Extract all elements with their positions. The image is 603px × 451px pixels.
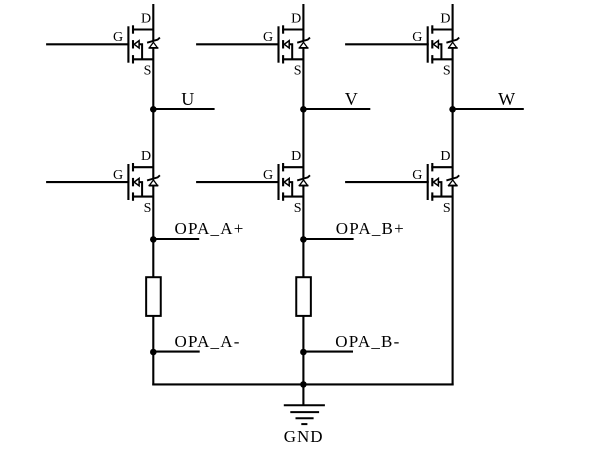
node OPA_A+ (junction dot): [150, 236, 157, 243]
svg-text:OPA_B+: OPA_B+: [336, 219, 405, 238]
gate bar of Q4 (U low-side): [127, 164, 129, 200]
svg-text:S: S: [144, 201, 152, 216]
node OPA_B+ (junction dot): [300, 236, 307, 243]
bulk wire of Q3 (W high-side): [438, 44, 441, 59]
bulk wire of Q1 (U high-side): [139, 44, 142, 59]
svg-text:V: V: [345, 89, 358, 109]
channel segments of Q5 (V low-side): [282, 163, 284, 201]
gate bar of Q2 (V high-side): [277, 26, 279, 62]
body diode of Q6 (W low-side): [446, 175, 459, 185]
svg-text:D: D: [291, 11, 301, 26]
transistor Q5 (V low-side): [196, 149, 310, 216]
svg-text:U: U: [181, 89, 194, 109]
source connection of Q6 (W low-side): [431, 196, 452, 198]
svg-text:G: G: [263, 30, 273, 45]
wire: OPA_B- sense tap: [303, 351, 353, 353]
source connection of Q2 (V high-side): [282, 58, 303, 60]
svg-text:S: S: [443, 64, 451, 79]
wire: U-phase leg vertical (R1 to ground rail): [152, 317, 154, 386]
svg-text:D: D: [141, 11, 151, 26]
resistor R1 (U-phase shunt): [146, 277, 161, 316]
svg-text:S: S: [443, 201, 451, 216]
svg-text:S: S: [144, 64, 152, 79]
channel segments of Q1 (U high-side): [132, 25, 134, 63]
bulk wire of Q4 (U low-side): [139, 182, 142, 197]
svg-text:W: W: [498, 89, 515, 109]
channel segments of Q2 (V high-side): [282, 25, 284, 63]
wire: phase output U: [153, 108, 214, 110]
bulk wire of Q6 (W low-side): [438, 182, 441, 197]
svg-text:G: G: [263, 168, 273, 183]
source connection of Q4 (U low-side): [132, 196, 153, 198]
svg-text:S: S: [294, 201, 302, 216]
svg-text:G: G: [113, 168, 123, 183]
body diode of Q3 (W high-side): [446, 38, 459, 48]
resistor R2 (V-phase shunt): [296, 277, 311, 316]
wire: V-phase leg vertical (R2 through rail to ground symbol): [302, 317, 304, 406]
channel segments of Q4 (U low-side): [132, 163, 134, 201]
svg-text:D: D: [291, 149, 301, 164]
node W (junction dot): [449, 106, 456, 113]
node U (junction dot): [150, 106, 157, 113]
source connection of Q1 (U high-side): [132, 58, 153, 60]
drain connection of Q1 (U high-side): [132, 28, 153, 30]
ground symbol: [284, 405, 325, 424]
transistor Q4 (U low-side): [46, 149, 160, 216]
bulk wire of Q2 (V high-side): [289, 44, 292, 59]
drain connection of Q3 (W high-side): [431, 28, 452, 30]
wire: gate lead of Q4 (U low-side): [46, 181, 129, 183]
wire: W-phase leg vertical (top to ground rail): [452, 4, 454, 385]
channel segments of Q3 (W high-side): [431, 25, 433, 63]
wire: OPA_B+ sense tap: [303, 238, 353, 240]
svg-text:D: D: [141, 149, 151, 164]
svg-text:G: G: [412, 30, 422, 45]
svg-text:OPA_A-: OPA_A-: [175, 332, 241, 351]
drain connection of Q4 (U low-side): [132, 166, 153, 168]
body diode of Q1 (U high-side): [147, 38, 160, 48]
wire: gate lead of Q5 (V low-side): [196, 181, 279, 183]
node OPA_A- (junction dot): [150, 349, 157, 356]
wire: gate lead of Q1 (U high-side): [46, 43, 129, 45]
drain connection of Q6 (W low-side): [431, 166, 452, 168]
drain connection of Q5 (V low-side): [282, 166, 303, 168]
wire: U-phase leg vertical (top to resistor R1): [152, 4, 154, 277]
source connection of Q3 (W high-side): [431, 58, 452, 60]
bulk arrow of Q6 (W low-side): [433, 178, 438, 185]
bulk arrow of Q5 (V low-side): [284, 178, 289, 185]
gate bar of Q3 (W high-side): [427, 26, 429, 62]
bulk arrow of Q4 (U low-side): [134, 178, 139, 185]
body diode of Q5 (V low-side): [297, 175, 310, 185]
wire: gate lead of Q6 (W low-side): [345, 181, 429, 183]
bulk arrow of Q1 (U high-side): [134, 41, 139, 48]
svg-text:GND: GND: [284, 427, 324, 446]
gate bar of Q6 (W low-side): [427, 164, 429, 200]
svg-text:OPA_A+: OPA_A+: [175, 219, 245, 238]
bulk arrow of Q3 (W high-side): [433, 41, 438, 48]
wire: bottom ground rail: [152, 383, 453, 385]
wire: OPA_A+ sense tap: [153, 238, 199, 240]
wire: OPA_A- sense tap: [153, 351, 199, 353]
drain connection of Q2 (V high-side): [282, 28, 303, 30]
svg-text:S: S: [294, 64, 302, 79]
svg-text:D: D: [440, 149, 450, 164]
gate bar of Q5 (V low-side): [277, 164, 279, 200]
transistor Q2 (V high-side): [196, 11, 310, 78]
bulk arrow of Q2 (V high-side): [284, 41, 289, 48]
svg-text:G: G: [412, 168, 422, 183]
body diode of Q2 (V high-side): [297, 38, 310, 48]
wire: phase output W: [453, 108, 524, 110]
bulk wire of Q5 (V low-side): [289, 182, 292, 197]
transistor Q3 (W high-side): [345, 11, 459, 78]
wire: gate lead of Q2 (V high-side): [196, 43, 279, 45]
node: rail-to-ground junction dot: [300, 381, 307, 388]
node OPA_B- (junction dot): [300, 349, 307, 356]
wire: phase output V: [303, 108, 370, 110]
node V (junction dot): [300, 106, 307, 113]
svg-text:G: G: [113, 30, 123, 45]
channel segments of Q6 (W low-side): [431, 163, 433, 201]
transistor Q6 (W low-side): [345, 149, 459, 216]
gate bar of Q1 (U high-side): [127, 26, 129, 62]
wire: gate lead of Q3 (W high-side): [345, 43, 429, 45]
wire: V-phase leg vertical (top to resistor R2): [302, 4, 304, 277]
svg-text:D: D: [440, 11, 450, 26]
svg-text:OPA_B-: OPA_B-: [335, 332, 400, 351]
body diode of Q4 (U low-side): [147, 175, 160, 185]
transistor Q1 (U high-side): [46, 11, 160, 78]
source connection of Q5 (V low-side): [282, 196, 303, 198]
